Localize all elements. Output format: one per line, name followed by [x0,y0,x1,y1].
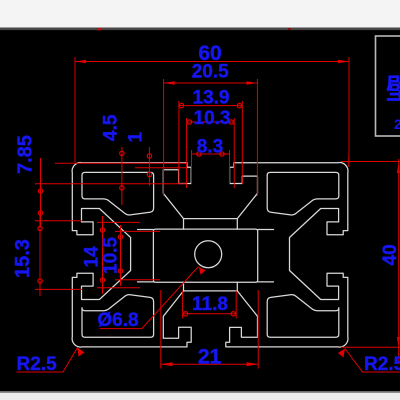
svg-text:7.85: 7.85 [15,135,37,174]
corner cavity bottom-right [267,295,339,338]
leader R2.5 right [345,349,400,373]
svg-text:1: 1 [126,132,147,143]
dim 14 [97,216,140,294]
dim 60 [75,57,349,162]
svg-text:8.3: 8.3 [197,137,223,158]
red marker on toolbar edge [97,28,101,30]
corner cavity bottom-left [82,295,154,338]
dim 40 [341,156,400,364]
corner cavity top-left [82,172,154,215]
svg-text:R2.5: R2.5 [17,354,58,375]
dim 15.3 [35,214,82,296]
center bore [195,241,222,268]
dim 1 [135,147,186,186]
bottom status strip [0,391,400,393]
dim 8.3 [192,150,230,184]
svg-text:14: 14 [82,246,103,268]
leader diameter 6.8 [100,267,199,329]
dim 21 [161,290,258,369]
svg-text:13.9: 13.9 [193,88,230,109]
dim 7.85 [35,158,186,227]
dim 11.8 [183,291,237,319]
dim 10.3 [187,118,235,188]
profile outer outline with 4 T-slots [72,163,348,348]
central core square [153,229,257,282]
svg-text:40: 40 [380,244,400,265]
red arrowheads [75,60,400,367]
svg-text:15.3: 15.3 [12,239,34,278]
svg-text:20.5: 20.5 [192,62,229,83]
top toolbar strip [0,0,400,28]
wing webs connecting core to slot pocket floors [138,230,154,282]
svg-text:4.5: 4.5 [101,114,122,141]
dim 13.9 [179,101,242,184]
corner cavity top-right [267,172,339,215]
dim 4.5 [55,147,186,205]
svg-text:11.8: 11.8 [192,294,228,315]
leader R2.5 left [17,348,78,373]
svg-text:10.3: 10.3 [194,108,231,129]
svg-text:10.5: 10.5 [101,237,122,274]
title block box (top right, partially visible) [376,36,400,136]
red circle arrow terminators [38,103,242,316]
svg-text:Ø6.8: Ø6.8 [97,310,138,331]
dim 10.5 [115,225,160,286]
svg-text:R2.5: R2.5 [364,354,400,375]
svg-text:2.0: 2.0 [394,116,400,132]
svg-text:21: 21 [198,346,222,369]
svg-text:壁厚: 壁厚 [386,74,400,105]
dim 20.5 [164,79,258,196]
